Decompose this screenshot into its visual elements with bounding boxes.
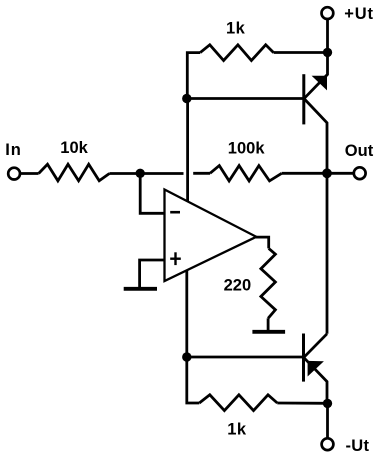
resistor R3 220 <box>261 248 276 318</box>
resistor R1 10k <box>39 164 110 181</box>
svg-text:+Ut: +Ut <box>344 5 373 23</box>
wire R5 to node E <box>277 402 327 405</box>
svg-text:In: In <box>5 141 21 159</box>
wire +Ut to node B <box>326 20 329 53</box>
ground (R3) <box>252 330 285 334</box>
ground (non-inverting input) <box>124 287 157 291</box>
transistor Q1 (top) <box>304 53 328 174</box>
resistor R2 100k <box>210 166 282 181</box>
Q1 base bar <box>302 74 305 124</box>
node C junction dot (top base) <box>182 94 191 103</box>
wire In to R1 <box>21 172 39 175</box>
wire op-amp V- supply pin to bottom base rail <box>185 271 188 358</box>
svg-text:1k: 1k <box>226 19 246 37</box>
op-amp plus input sign <box>170 258 181 260</box>
svg-text:220: 220 <box>224 277 252 295</box>
wire node A to inverting input <box>140 173 163 213</box>
svg-text:100k: 100k <box>228 139 266 157</box>
op-amp U1 <box>165 190 257 282</box>
terminal In <box>8 168 20 180</box>
terminal +Ut <box>322 7 334 19</box>
svg-text:10k: 10k <box>60 139 88 157</box>
Q2 emitter arrow <box>308 361 324 377</box>
Q2 emitter lead <box>304 358 327 404</box>
Q1 emitter arrow <box>312 76 327 91</box>
op-amp minus input sign <box>170 211 180 214</box>
wire R1 to node A (ends at crossover gap) <box>109 172 183 175</box>
Q1 emitter lead <box>304 53 327 99</box>
wire op-amp V+ supply pin to top base rail <box>186 99 189 202</box>
wire bottom base line <box>187 356 303 359</box>
node A junction dot <box>136 169 145 178</box>
wire top rail corner to R4 <box>187 53 200 99</box>
Q2 base bar <box>302 334 305 382</box>
svg-text:1k: 1k <box>227 421 247 439</box>
node D junction dot (bottom base) <box>182 352 191 361</box>
resistor R4 1k (top) <box>200 45 273 61</box>
terminal -Ut <box>322 438 334 450</box>
wire op-amp output to R3 <box>255 237 269 248</box>
wire bottom rail corner to R5 <box>187 357 200 403</box>
node E junction dot <box>323 399 332 408</box>
wire node E to -Ut <box>326 403 329 437</box>
wire Out node to Q2 collector <box>326 173 329 333</box>
wire R4 to node B <box>274 51 328 54</box>
transistor Q2 (bottom) <box>304 334 328 404</box>
wire R3 to ground <box>267 318 270 330</box>
wire node A to R2 (after crossover gap) <box>193 172 210 175</box>
wire non-inverting input to ground <box>140 260 164 287</box>
wire top base line <box>187 97 303 100</box>
node B junction dot <box>323 48 332 57</box>
wire R2 to Out terminal <box>282 172 353 175</box>
resistor R5 1k (bottom) <box>199 395 277 411</box>
terminal Out <box>354 167 366 179</box>
svg-text:Out: Out <box>345 142 374 160</box>
Q2 collector lead <box>304 334 327 357</box>
svg-text:-Ut: -Ut <box>346 437 370 455</box>
node Out junction dot <box>322 168 332 178</box>
Q1 collector lead <box>304 99 327 173</box>
